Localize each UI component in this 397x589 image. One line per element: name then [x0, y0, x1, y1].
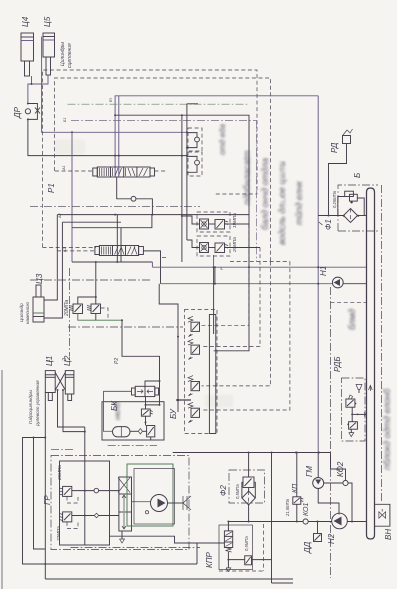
- GR relief 1: [57, 465, 119, 503]
- svg-text:Ц3: Ц3: [35, 273, 44, 284]
- cylinder C3: [33, 273, 44, 322]
- left drop line: [44, 393, 46, 580]
- svg-text:0,5МПа: 0,5МПа: [235, 484, 240, 499]
- svg-text:20МПа: 20МПа: [232, 237, 237, 253]
- dashed boundary box P1 outer: [43, 70, 258, 247]
- label clutch cylinders: [60, 42, 73, 68]
- svg-text:Ц4: Ц4: [21, 16, 30, 27]
- svg-text:21,5МПа: 21,5МПа: [285, 498, 290, 517]
- dash-dot pilot row A: [68, 103, 250, 105]
- line A1 row: [57, 214, 182, 216]
- DD pressure sensor: [303, 521, 322, 555]
- frame edge line: [1, 370, 3, 589]
- svg-text:Н2: Н2: [327, 533, 336, 544]
- dash-dot long vertical mid: [330, 287, 332, 578]
- wires cylinders to GR: [58, 390, 85, 427]
- RDB block: [333, 356, 372, 441]
- svg-text:19МПа: 19МПа: [232, 213, 237, 228]
- KPR block: [205, 521, 272, 572]
- supply riser: [71, 132, 73, 262]
- throttle DR: [13, 103, 40, 121]
- dash-dot pilot row1: [30, 206, 200, 208]
- svg-text:А1: А1: [62, 165, 66, 171]
- spool valve R1-2: [57, 246, 143, 256]
- BU supply wire: [176, 399, 191, 401]
- svg-text:ГР: ГР: [43, 495, 52, 505]
- svg-text:А2: А2: [58, 212, 62, 219]
- svg-text:КПР: КПР: [205, 551, 214, 568]
- dash-dot row under relief: [68, 326, 183, 328]
- T return from valve2: [213, 255, 215, 267]
- scan bleed-through ghosts (decorative tone): [55, 124, 392, 470]
- main pressure line top: [115, 96, 318, 177]
- svg-text:Р2: Р2: [114, 358, 120, 364]
- svg-text:Ф1: Ф1: [324, 219, 333, 230]
- valve R1-1 taps up: [118, 96, 120, 177]
- svg-text:отд еда: отд еда: [218, 124, 227, 155]
- svg-text:20МПа: 20МПа: [64, 300, 70, 317]
- svg-text:ГМ: ГМ: [305, 466, 314, 477]
- svg-text:навесного: навесного: [25, 302, 30, 324]
- dashed bottom P1: [43, 246, 97, 248]
- cylinder C3 connections: [44, 215, 57, 300]
- tank B tube: [353, 173, 375, 539]
- dash-dot frame around tank: [338, 185, 378, 231]
- dash-dot pilot row2: [30, 279, 152, 281]
- svg-text:Ц5: Ц5: [43, 16, 52, 27]
- BU block: [169, 310, 217, 434]
- svg-text:РДБ: РДБ: [333, 356, 342, 372]
- svg-text:Б1: Б1: [63, 117, 67, 122]
- svg-text:водсль длபое цแกน: водсль длபое цแกน: [277, 161, 287, 245]
- svg-text:пдобнлаcatm: пдобнлаcatm: [242, 150, 252, 205]
- svg-text:Цилиндр: Цилиндр: [19, 303, 24, 322]
- cylinder C5: [43, 16, 55, 75]
- steering cylinder C1: [45, 356, 55, 401]
- KO2 check valve: [324, 461, 353, 522]
- RD pressure switch: [329, 129, 353, 216]
- group interconnect wires: [182, 216, 200, 224]
- svg-text:РД: РД: [330, 142, 339, 153]
- BK feed step: [122, 320, 160, 405]
- valve R1-2 bottom rail: [72, 261, 152, 263]
- svg-text:2: 2: [336, 468, 342, 472]
- svg-text:БУ: БУ: [169, 408, 178, 419]
- cylinder C4: [21, 16, 34, 76]
- dashed boundary box inner: [55, 78, 271, 262]
- svg-text:ДР: ДР: [13, 106, 22, 119]
- steering supply line: [173, 452, 331, 454]
- long vertical right of BU: [271, 453, 273, 584]
- junction row to pilots: [225, 223, 249, 225]
- svg-text:Цилиндры: Цилиндры: [60, 42, 66, 66]
- dash-dot vertical left: [69, 268, 71, 356]
- wire C5 to valve inlet: [42, 37, 187, 133]
- line from main down to BK: [159, 284, 178, 412]
- svg-text:тйпд елнк: тйпд елнк: [294, 180, 304, 225]
- svg-text:0,25МПа: 0,25МПа: [332, 190, 337, 208]
- GR block boundary: [51, 456, 189, 550]
- dashed pilot drops to BU: [202, 224, 249, 326]
- GR pump box: [127, 464, 173, 526]
- GM hydromotor: [305, 453, 324, 489]
- wire GM outlet to pump N2: [318, 489, 339, 515]
- GR pump: [151, 495, 192, 512]
- valve R1-1 tap down with check: [117, 177, 131, 199]
- steering cylinder C2: [63, 355, 74, 400]
- svg-text:2: 2: [62, 358, 68, 362]
- svg-text:Гидроцилиндры: Гидроцилиндры: [28, 390, 33, 424]
- pump N2: [327, 513, 347, 544]
- label steering cylinders: [28, 380, 40, 427]
- svg-text:КО1: КО1: [303, 503, 310, 516]
- svg-text:БК: БК: [110, 400, 119, 411]
- main long pressure line to pump: [143, 251, 160, 284]
- junction: [31, 83, 33, 85]
- main right vertical: [181, 115, 183, 262]
- dash-dot pilot segments above GR: [108, 444, 157, 446]
- relief valve block 20MPa: [64, 296, 122, 320]
- KP relief valve: [285, 452, 303, 522]
- filter F1 group: [318, 190, 366, 230]
- svg-text:пблокд одтд елонб: пблокд одтд елонб: [382, 388, 392, 470]
- wire DR to T line: [28, 119, 187, 155]
- GR relief 2: [56, 512, 119, 542]
- cross link wires C1 C2: [55, 373, 65, 391]
- vertical from green row down: [121, 319, 123, 321]
- svg-text:т: т: [108, 98, 113, 102]
- GR spool: [118, 477, 150, 543]
- F2 connections: [248, 453, 250, 478]
- svg-text:сцепления: сцепления: [67, 43, 73, 68]
- right trunk down: [317, 96, 319, 453]
- KO1 check valve: [303, 503, 310, 525]
- F2 filter block: [219, 470, 265, 505]
- anti-shock valve group 2: [197, 236, 237, 256]
- svg-text:1: 1: [46, 359, 52, 362]
- label C3 text: [19, 302, 30, 324]
- pilot check valves pair: [187, 128, 202, 176]
- spool valve R1-1: [55, 167, 166, 177]
- wire C5 down: [32, 75, 49, 84]
- wire C4 down: [28, 76, 32, 103]
- svg-text:блмд: блмд: [347, 309, 357, 330]
- svg-text:рулевого управления: рулевого управления: [35, 380, 40, 427]
- line row3: [72, 215, 152, 228]
- svg-text:КП: КП: [292, 483, 299, 493]
- GR to KPR line: [110, 536, 225, 543]
- GR bottom drains: [45, 578, 293, 580]
- pump N1: [319, 266, 367, 288]
- KPR feed: [196, 543, 198, 564]
- svg-text:ВН: ВН: [384, 529, 393, 540]
- GR internal links: [84, 489, 86, 545]
- vertical feed down right of valves: [248, 266, 250, 268]
- svg-text:балд ончд отдла: балд ончд отдла: [260, 158, 270, 230]
- BK block: [102, 381, 164, 440]
- svg-text:Ф2: Ф2: [219, 485, 228, 496]
- svg-text:Р1: Р1: [47, 183, 56, 193]
- GR inner box: [60, 461, 110, 545]
- svg-text:ДД: ДД: [303, 541, 312, 554]
- dash-dot pilot row B: [71, 119, 257, 121]
- anti-shock valve group 1: [197, 212, 237, 232]
- line B1 row: [62, 221, 121, 223]
- svg-text:Н1: Н1: [319, 266, 328, 276]
- svg-text:Б: Б: [353, 173, 362, 178]
- svg-text:23МПа: 23МПа: [56, 526, 61, 542]
- svg-text:0,5МПа: 0,5МПа: [244, 536, 249, 551]
- svg-text:23МПа: 23МПа: [57, 465, 62, 481]
- riser from relief to main: [95, 262, 97, 297]
- suction main line: [228, 521, 303, 523]
- VN drain valve: [375, 504, 394, 540]
- pilot loop relief: [101, 308, 109, 320]
- dash-dot bottom of GR: [71, 547, 201, 549]
